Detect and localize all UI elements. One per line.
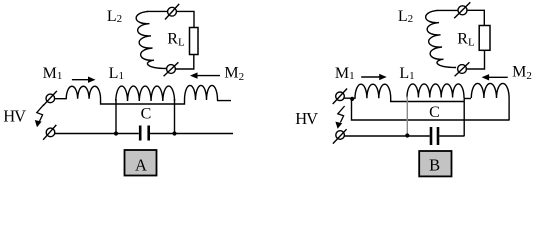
inductor M1 (A) with main wire and under-wire (55, 86, 185, 104)
svg-text:C: C (141, 105, 152, 122)
svg-text:M2: M2 (512, 64, 532, 83)
node dot right (A) (172, 131, 176, 135)
svg-text:L2: L2 (107, 8, 122, 25)
arrow right (B M1) (361, 74, 387, 80)
wire RL bottom lead (A) (175, 55, 193, 70)
wire L2 top lead (147, 10, 168, 12)
node dot left (A) (114, 131, 118, 135)
svg-text:M1: M1 (43, 65, 63, 82)
HV terminal bottom (A) (43, 125, 56, 140)
panel label box A (125, 150, 157, 176)
svg-text:HV: HV (3, 107, 26, 126)
node dot at HV+ (B) (350, 97, 354, 101)
svg-text:HV: HV (295, 109, 318, 128)
svg-text:L2: L2 (398, 8, 413, 25)
svg-text:C: C (429, 104, 440, 121)
meter/terminal symbol top (B) (454, 2, 470, 18)
wire rail HV+ to M2 end (B) (352, 99, 510, 120)
inductor L2 (A secondary coil) (136, 11, 166, 68)
wire RL bottom lead (B) (466, 50, 484, 69)
label M2 (B) (512, 64, 532, 83)
arrow left (A M2) (190, 72, 220, 78)
label HV (B) (295, 109, 318, 128)
meter/terminal symbol bottom (B) (455, 62, 470, 76)
lightning arrow (B) (335, 106, 344, 129)
label HV (A) (3, 107, 26, 126)
label M1 (A) (43, 65, 63, 82)
label RL (A) (167, 31, 185, 49)
svg-text:RL: RL (457, 30, 475, 48)
wire riser L1 end to cap (B) (463, 98, 465, 137)
label M2 (A) (224, 65, 244, 84)
capacitor C (B) (431, 127, 438, 145)
label L1 (A) (109, 65, 124, 82)
node dot tap (B) (405, 133, 409, 137)
panel label box B (419, 151, 451, 176)
arrow right (A M1) (72, 77, 96, 83)
wire tap left (A) (115, 99, 117, 134)
inductor L2 (B secondary coil) (426, 10, 456, 67)
lightning arrow (A) (35, 105, 44, 128)
wire tap right (A) (174, 99, 176, 134)
HV terminal top (B) (333, 89, 347, 105)
label L2 (B) (398, 8, 413, 25)
svg-text:B: B (429, 155, 440, 174)
inductor M2 (B) (471, 83, 509, 120)
wire bottom right (B) (439, 135, 464, 137)
HV terminal bottom (B) (333, 129, 347, 143)
wire bottom left (A) (55, 133, 139, 135)
wire L1 end to M2 (B) (464, 98, 471, 100)
inductor M1 (B) with step to bracket (344, 84, 464, 101)
label L1 (B) (399, 65, 414, 82)
meter/terminal symbol bottom (A) (164, 62, 179, 76)
svg-text:M1: M1 (335, 65, 355, 82)
capacitor C (A) (140, 126, 149, 141)
wire top circle to RL (A) (176, 11, 194, 27)
wire bottom left (B) (344, 135, 429, 137)
label C (A) (141, 105, 152, 122)
inductor L1 (B) (407, 84, 464, 98)
svg-text:L1: L1 (109, 65, 124, 82)
HV terminal top (A) (43, 91, 57, 106)
arrow left (B M2) (482, 74, 508, 80)
meter/terminal symbol top (A) (165, 4, 179, 20)
wire bottom right (A) (150, 133, 233, 135)
svg-text:RL: RL (167, 31, 185, 49)
label C (B) (429, 104, 440, 121)
wire tap gray L1 start to cap (B) (406, 97, 408, 136)
resistor RL (A) (190, 28, 199, 55)
svg-text:L1: L1 (399, 65, 414, 82)
inductor M2 (A) (185, 85, 232, 100)
svg-text:M2: M2 (224, 65, 244, 84)
label L2 (A) (107, 8, 122, 25)
label RL (B) (457, 30, 475, 48)
wire L2 top lead (B) (437, 9, 458, 11)
svg-text:A: A (135, 155, 147, 174)
inductor L1 (A) (116, 86, 175, 101)
resistor RL (B) (479, 26, 490, 51)
wire top circle to RL (B) (467, 10, 484, 25)
label M1 (B) (335, 65, 355, 82)
